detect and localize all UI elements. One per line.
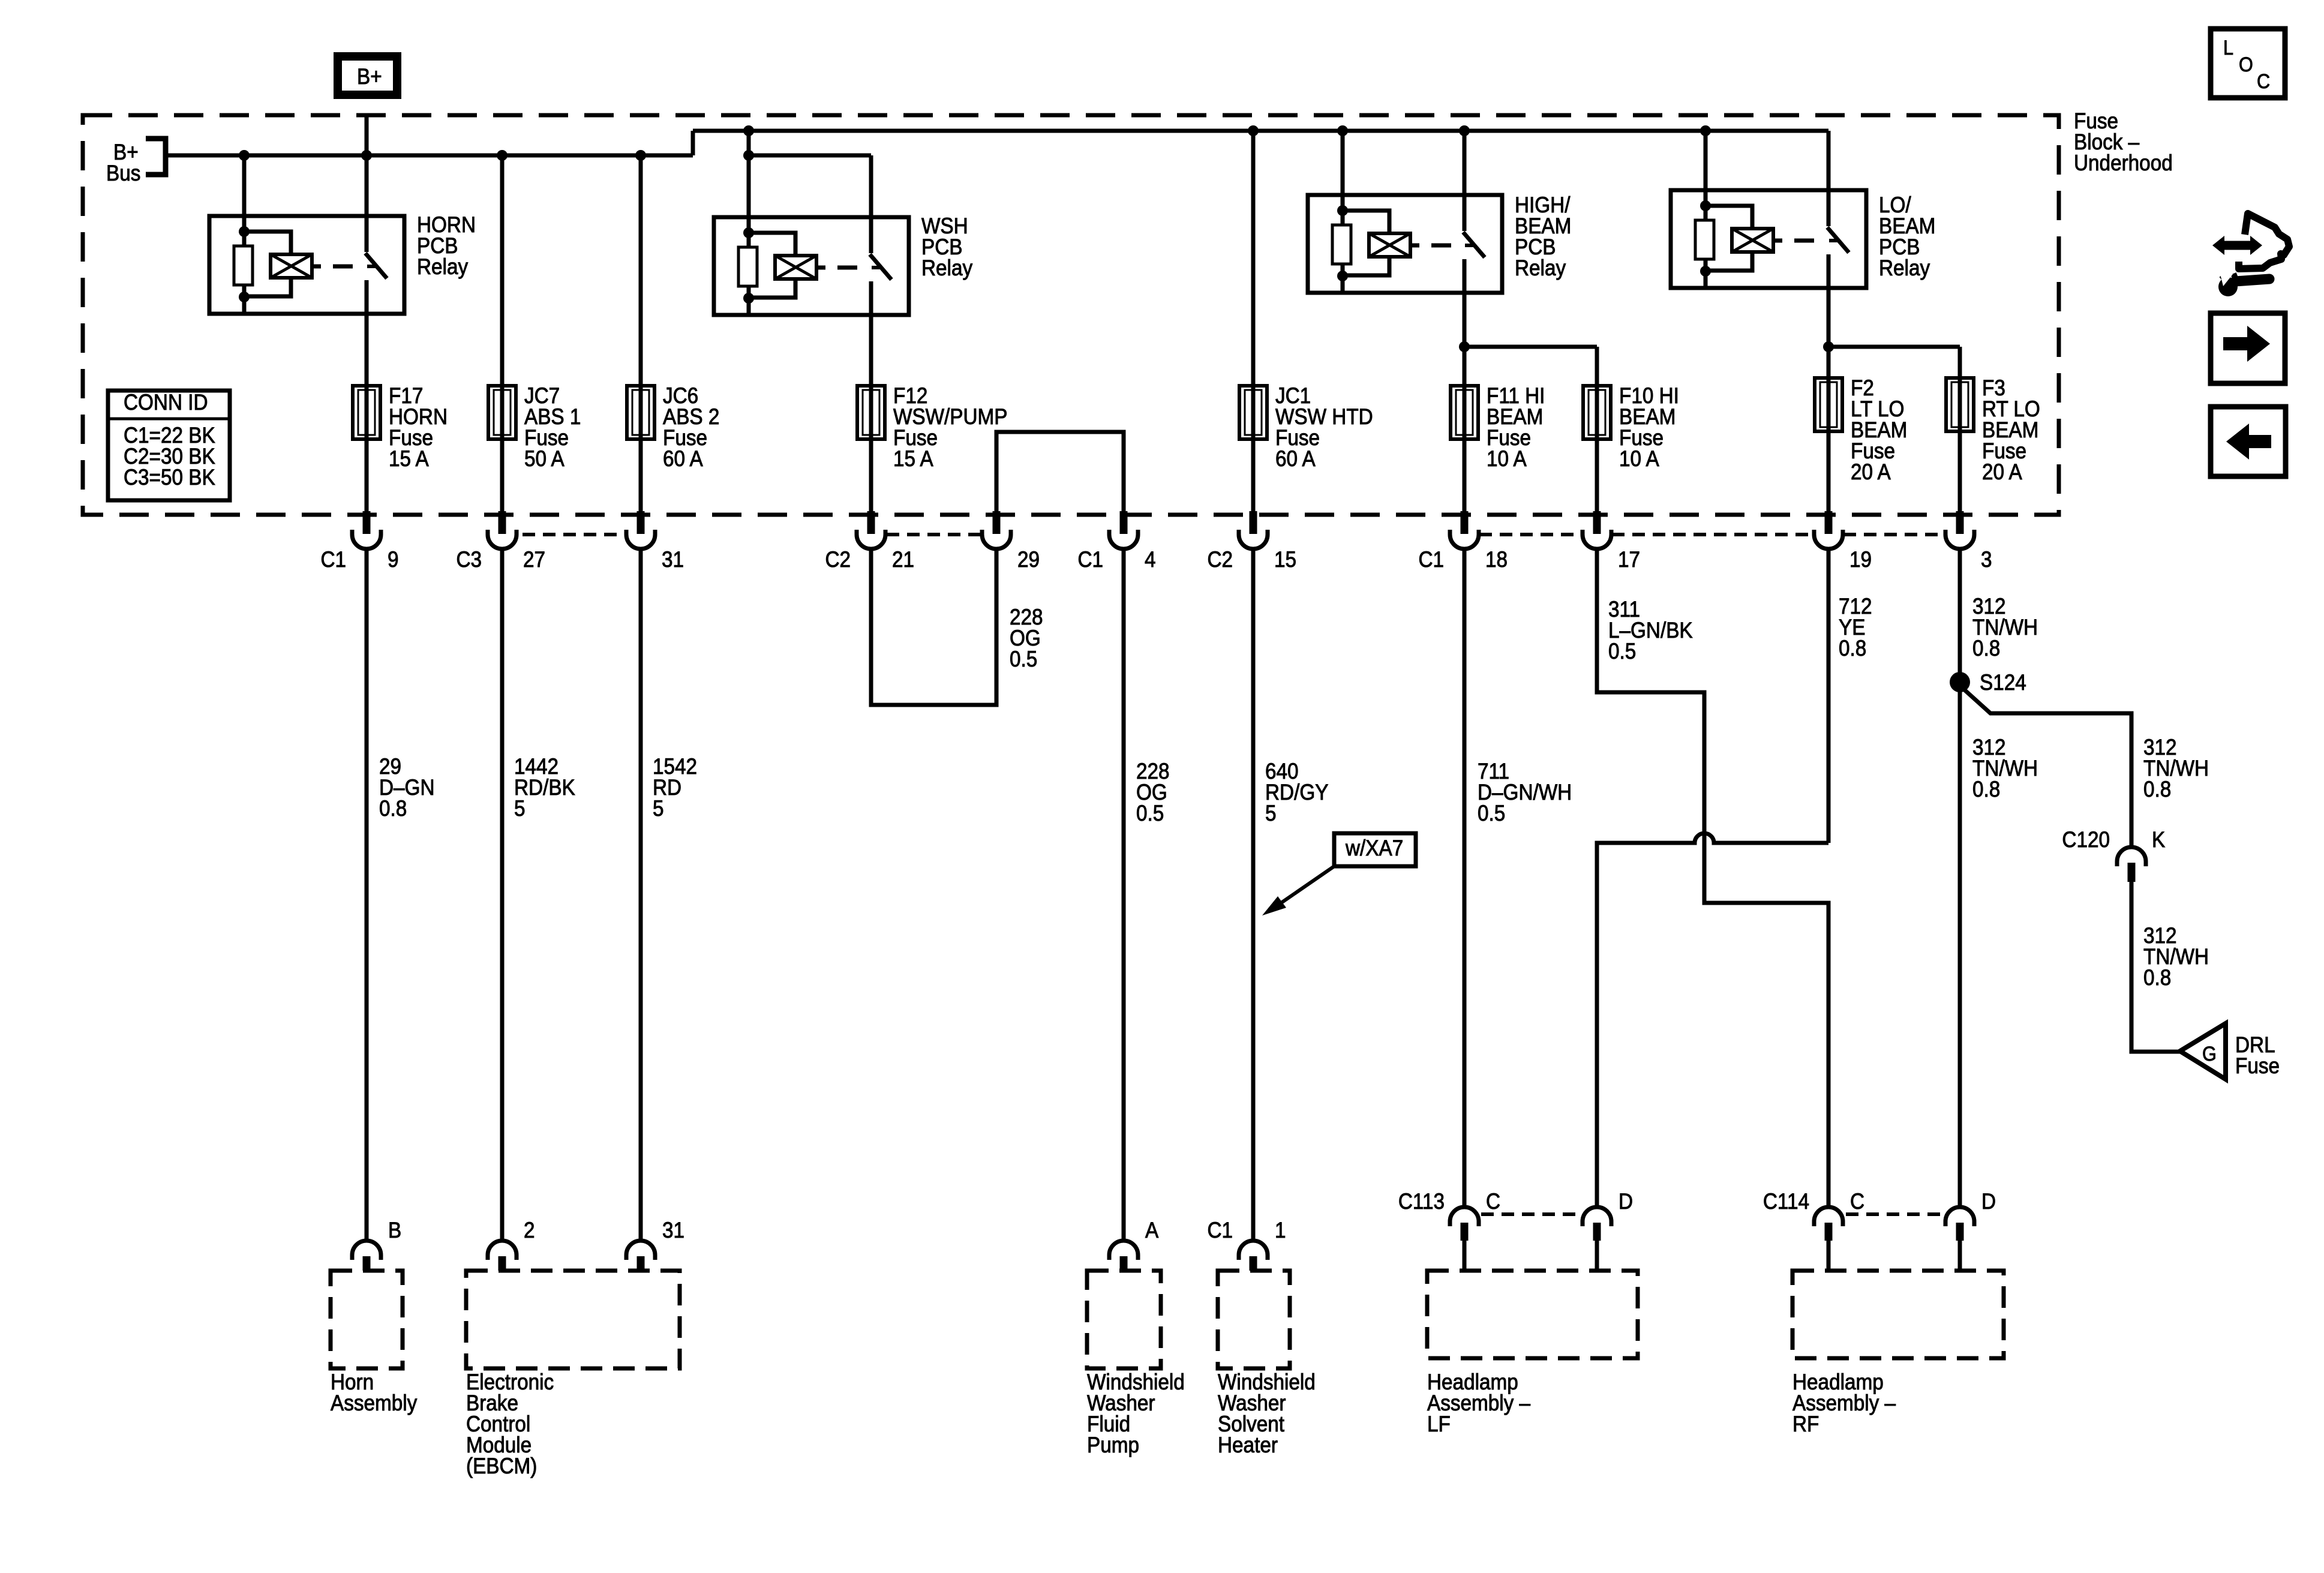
svg-text:O: O <box>2239 53 2253 76</box>
connector C3 group dashed line <box>523 533 626 536</box>
wire F12 jumper inside fuse block (pin 29 to pin 4) <box>996 432 1124 511</box>
connector pin exit x=3048 <box>1814 530 1843 549</box>
component Windshield Washer Solvent Heater <box>1218 1271 1290 1368</box>
svg-text:Relay: Relay <box>1879 256 1930 280</box>
wire 312 TN/WH 0.8 to DRL fuse <box>2131 882 2181 1052</box>
svg-text:D: D <box>1619 1189 1633 1214</box>
wire JC6 feed <box>639 155 643 386</box>
svg-text:S124: S124 <box>1980 670 2026 695</box>
svg-text:21: 21 <box>892 547 914 572</box>
connector headlamp pin x=3048 <box>1814 1207 1843 1226</box>
svg-text:60 A: 60 A <box>1275 446 1316 471</box>
wire 1542 RD 5 <box>639 549 643 1239</box>
node LO/BEAM PCB coil bottom junction <box>1700 266 1711 277</box>
svg-text:C1: C1 <box>1207 1218 1233 1242</box>
wire fuse output x=1068 to block edge <box>639 439 643 512</box>
svg-text:10 A: 10 A <box>1487 446 1527 471</box>
fuse F10 HI BEAM <box>1583 386 1611 439</box>
svg-text:D: D <box>1981 1189 1996 1214</box>
svg-text:C3=50 BK: C3=50 BK <box>124 465 215 490</box>
svg-text:C1: C1 <box>1418 547 1444 572</box>
connector C1 group dashed lines <box>1479 533 1581 536</box>
connector pin exit x=1452 <box>857 530 885 549</box>
wire B+ feed down from B+ box <box>365 113 369 155</box>
switch HIGH/BEAM PCB relay contact <box>1463 195 1467 231</box>
component Horn Assembly <box>331 1271 403 1368</box>
relay HIGH/BEAM PCB coil feed wire <box>1341 195 1345 293</box>
svg-text:5: 5 <box>653 796 664 821</box>
svg-text:B: B <box>388 1218 401 1242</box>
connector component pin x=611 <box>352 1241 381 1260</box>
svg-text:CONN ID: CONN ID <box>124 390 208 415</box>
connector C113 group dashed line <box>1481 1212 1583 1216</box>
svg-text:Underhood: Underhood <box>2074 151 2173 175</box>
svg-text:0.5: 0.5 <box>1136 801 1164 825</box>
fuse F11 HI BEAM <box>1451 386 1478 439</box>
wire WSH relay output to F12 <box>869 315 873 386</box>
svg-text:Fuse: Fuse <box>2235 1053 2280 1078</box>
svg-text:15 A: 15 A <box>389 446 429 471</box>
connector C120 pin K <box>2117 847 2146 866</box>
wire HIGH/BEAM relay output <box>1463 293 1467 386</box>
fuse JC7 ABS 1 <box>488 386 516 439</box>
component Headlamp Assembly LF <box>1427 1271 1638 1358</box>
svg-text:C: C <box>2257 70 2270 93</box>
svg-text:Bus: Bus <box>106 161 140 185</box>
svg-text:C: C <box>1486 1189 1500 1214</box>
svg-text:RF: RF <box>1792 1412 1819 1436</box>
wire WSH PCB coil actuator dashed link <box>816 266 825 270</box>
svg-text:C3: C3 <box>456 547 482 572</box>
wire fuse output x=3048 to block edge <box>1827 431 1831 512</box>
icon vehicle with wrench <box>2239 214 2289 269</box>
wire fuse output x=611 to block edge <box>365 439 369 512</box>
svg-text:0.8: 0.8 <box>1972 777 2000 801</box>
wire B+ bus (upper tier) <box>693 129 1828 133</box>
callout w/XA7 <box>1334 833 1416 866</box>
svg-text:1: 1 <box>1275 1218 1286 1242</box>
relay LO/BEAM PCB coil <box>1732 229 1773 252</box>
wire 311 L-GN/BK 0.5 (pin 17 to C114 C) <box>1597 549 1828 1208</box>
connector headlamp pin x=2662 <box>1583 1207 1611 1226</box>
svg-text:17: 17 <box>1618 547 1640 572</box>
svg-text:LF: LF <box>1427 1412 1451 1436</box>
svg-text:Relay: Relay <box>1515 256 1566 280</box>
svg-text:Relay: Relay <box>921 256 972 280</box>
svg-text:C2: C2 <box>825 547 851 572</box>
fuse block dashed border <box>83 115 2059 515</box>
svg-text:0.8: 0.8 <box>2143 777 2171 801</box>
svg-text:C2: C2 <box>1207 547 1233 572</box>
wire 312 TN/WH 0.8 branch to C120 <box>1960 686 2131 846</box>
component Windshield Washer Fluid Pump <box>1087 1271 1161 1368</box>
connector C114 group dashed line <box>1846 1212 1947 1216</box>
connector pin exit x=2089 <box>1239 530 1268 549</box>
relay LO/BEAM PCB Relay: feed wires <box>1704 131 1708 190</box>
fuse DRL (off-sheet triangle G) <box>2180 1023 2226 1079</box>
resistor HIGH/BEAM PCB coil-suppression <box>1332 225 1351 264</box>
svg-text:(EBCM): (EBCM) <box>466 1454 537 1478</box>
wire 228 OG 0.5 loop below block (pin 21 to pin 29) <box>871 549 996 705</box>
CONN ID legend table <box>108 391 230 500</box>
svg-text:20 A: 20 A <box>1982 460 2022 484</box>
node S124 splice <box>1950 672 1970 692</box>
icon LOC box <box>2211 29 2285 98</box>
fuse F12 WSW/PUMP <box>857 386 885 439</box>
svg-text:2: 2 <box>524 1218 535 1242</box>
wire HORN relay output to F17 <box>365 314 369 386</box>
svg-text:31: 31 <box>662 547 684 572</box>
relay HORN PCB Relay: feed wires <box>242 155 247 216</box>
svg-text:C113: C113 <box>1398 1189 1445 1214</box>
svg-text:27: 27 <box>523 547 545 572</box>
icon back arrow box <box>2211 407 2286 476</box>
wire WSH PCB coil loop <box>749 233 795 256</box>
connector component pin x=837 <box>488 1241 517 1260</box>
wire fuse output x=837 to block edge <box>500 439 505 512</box>
svg-text:5: 5 <box>514 796 526 821</box>
svg-text:C114: C114 <box>1763 1189 1809 1214</box>
node hi-beam branch junction <box>1459 341 1470 352</box>
node HORN PCB coil top junction <box>239 226 250 237</box>
svg-text:L: L <box>2223 37 2233 59</box>
node LO/BEAM PCB coil top junction <box>1700 200 1711 211</box>
node HIGH/BEAM PCB coil bottom junction <box>1337 271 1348 281</box>
wire branch to F10 <box>1464 345 1597 349</box>
wire fuse output x=2441 to block edge <box>1463 439 1467 512</box>
svg-text:20 A: 20 A <box>1851 460 1891 484</box>
wire 712 YE 0.8 (pin 19 to C113 D) with crossover hop <box>1827 549 1831 843</box>
fuse F2 LT LO BEAM <box>1815 378 1842 431</box>
relay LO/BEAM PCB box <box>1671 190 1866 288</box>
wire fuse output x=2662 to block edge <box>1595 439 1599 512</box>
svg-text:A: A <box>1145 1218 1159 1242</box>
node WSH PCB coil top junction <box>743 227 754 238</box>
svg-text:5: 5 <box>1265 801 1277 825</box>
connector component pin x=1873 <box>1109 1241 1138 1260</box>
component Electronic Brake Control Module <box>466 1271 680 1368</box>
svg-text:C: C <box>1850 1189 1864 1214</box>
fuse F3 RT LO BEAM <box>1946 378 1974 431</box>
wire branch to F3 <box>1828 345 1960 349</box>
connector component pin x=1068 <box>626 1241 655 1260</box>
relay LO/BEAM PCB coil feed wire <box>1704 190 1708 288</box>
svg-text:0.8: 0.8 <box>1972 636 2000 661</box>
wire 640 RD/GY 5 <box>1251 549 1256 1239</box>
wire 1442 RD/BK 5 <box>500 549 505 1239</box>
svg-text:15 A: 15 A <box>893 446 933 471</box>
svg-text:29: 29 <box>1017 547 1040 572</box>
connector pin exit x=1661 <box>993 511 1001 534</box>
svg-text:Pump: Pump <box>1087 1433 1139 1457</box>
fuse F17 HORN <box>353 386 380 439</box>
switch LO/BEAM PCB relay contact <box>1827 190 1831 226</box>
connector pin exit x=2662 <box>1583 530 1611 549</box>
svg-text:9: 9 <box>388 547 399 572</box>
connector headlamp pin x=2441 <box>1450 1207 1479 1226</box>
wire 29 D-GN 0.8 (horn) <box>365 549 369 1239</box>
switch HORN PCB relay contact <box>365 216 369 252</box>
svg-text:19: 19 <box>1849 547 1872 572</box>
relay WSH PCB box <box>714 217 909 315</box>
wire B+ bus (lower tier) <box>166 154 693 158</box>
wire HIGH/BEAM PCB coil actuator dashed link <box>1410 244 1419 248</box>
svg-text:50 A: 50 A <box>524 446 565 471</box>
connector pin exit x=837 <box>488 530 517 549</box>
svg-text:K: K <box>2152 827 2166 852</box>
svg-text:18: 18 <box>1485 547 1508 572</box>
connector pin exit x=611 <box>352 530 381 549</box>
resistor LO/BEAM PCB coil-suppression <box>1695 220 1714 259</box>
svg-text:0.5: 0.5 <box>1608 639 1636 664</box>
svg-text:4: 4 <box>1145 547 1156 572</box>
relay HIGH/BEAM PCB Relay: feed wires <box>1341 131 1345 195</box>
wire LO/BEAM PCB coil actuator dashed link <box>1773 239 1782 243</box>
svg-text:G: G <box>2202 1043 2217 1065</box>
wire B+ bus step-up <box>691 131 695 155</box>
node HORN PCB coil bottom junction <box>239 292 250 302</box>
svg-text:3: 3 <box>1981 547 1992 572</box>
wire fuse output x=1452 to block edge <box>869 439 873 512</box>
svg-text:C120: C120 <box>2062 827 2110 852</box>
node lo-beam branch junction <box>1823 341 1834 352</box>
svg-text:0.8: 0.8 <box>1839 636 1866 661</box>
connector pin exit x=1873 <box>1120 511 1128 534</box>
svg-text:w/XA7: w/XA7 <box>1345 836 1403 860</box>
svg-text:Heater: Heater <box>1218 1433 1278 1457</box>
svg-text:15: 15 <box>1274 547 1296 572</box>
relay WSH PCB Relay: feed tee <box>747 131 751 155</box>
connector pin exit x=1068 <box>626 530 655 549</box>
node HIGH/BEAM PCB coil top junction <box>1337 205 1348 216</box>
wire HORN PCB coil actuator dashed link <box>312 265 321 269</box>
fuse JC1 WSW HTD <box>1239 386 1267 439</box>
svg-text:0.5: 0.5 <box>1010 647 1037 671</box>
wire JC7 feed <box>500 155 505 386</box>
wire HIGH/BEAM PCB coil loop <box>1343 211 1389 233</box>
resistor WSH PCB coil-suppression <box>738 247 757 286</box>
svg-text:C1: C1 <box>1077 547 1103 572</box>
wire 228 OG 0.5 to washer pump <box>1122 549 1126 1239</box>
svg-text:Assembly: Assembly <box>331 1391 418 1415</box>
icon forward arrow box <box>2211 313 2285 383</box>
connector pin exit x=3267 <box>1945 530 1974 549</box>
svg-text:31: 31 <box>662 1218 684 1242</box>
relay HIGH/BEAM PCB coil <box>1369 233 1410 257</box>
connector pin exit x=2441 <box>1450 530 1479 549</box>
relay HORN PCB coil feed wire <box>242 216 247 314</box>
svg-text:0.8: 0.8 <box>379 796 407 821</box>
relay HORN PCB box <box>209 216 404 314</box>
power symbol B+ <box>338 56 397 95</box>
resistor HORN PCB coil-suppression <box>234 246 253 285</box>
svg-text:0.8: 0.8 <box>2143 965 2171 990</box>
svg-text:10 A: 10 A <box>1619 446 1659 471</box>
svg-text:Relay: Relay <box>417 254 468 279</box>
wire LO/BEAM relay output <box>1827 288 1831 378</box>
wire 711 D-GN/WH 0.5 <box>1463 549 1467 1208</box>
svg-text:B+: B+ <box>357 64 382 89</box>
junction dots on B+ bus <box>239 150 250 161</box>
switch WSH PCB relay contact <box>869 217 873 253</box>
wire JC1 feed <box>1251 131 1256 386</box>
relay WSH PCB coil feed wire <box>747 217 751 315</box>
svg-text:0.5: 0.5 <box>1478 801 1505 825</box>
relay HIGH/BEAM PCB box <box>1308 195 1502 293</box>
connector headlamp pin x=3267 <box>1945 1207 1974 1226</box>
svg-text:60 A: 60 A <box>663 446 703 471</box>
fuse JC6 ABS 2 <box>627 386 654 439</box>
wire fuse output x=3267 to block edge <box>1958 431 1962 512</box>
component Headlamp Assembly RF <box>1792 1271 2004 1358</box>
wire LO/BEAM PCB coil loop <box>1706 206 1752 229</box>
wire fuse output x=2089 to block edge <box>1251 439 1256 512</box>
relay WSH PCB coil <box>775 256 816 279</box>
connector component pin x=2089 <box>1239 1241 1268 1260</box>
connector C2 group dashed line <box>887 533 982 536</box>
node WSH PCB coil bottom junction <box>743 293 754 304</box>
relay HORN PCB coil <box>271 254 312 278</box>
wire HORN PCB coil loop <box>244 232 291 254</box>
svg-text:C1: C1 <box>320 547 346 572</box>
wire 312 TN/WH 0.8 (pin 3) <box>1958 549 1962 1208</box>
